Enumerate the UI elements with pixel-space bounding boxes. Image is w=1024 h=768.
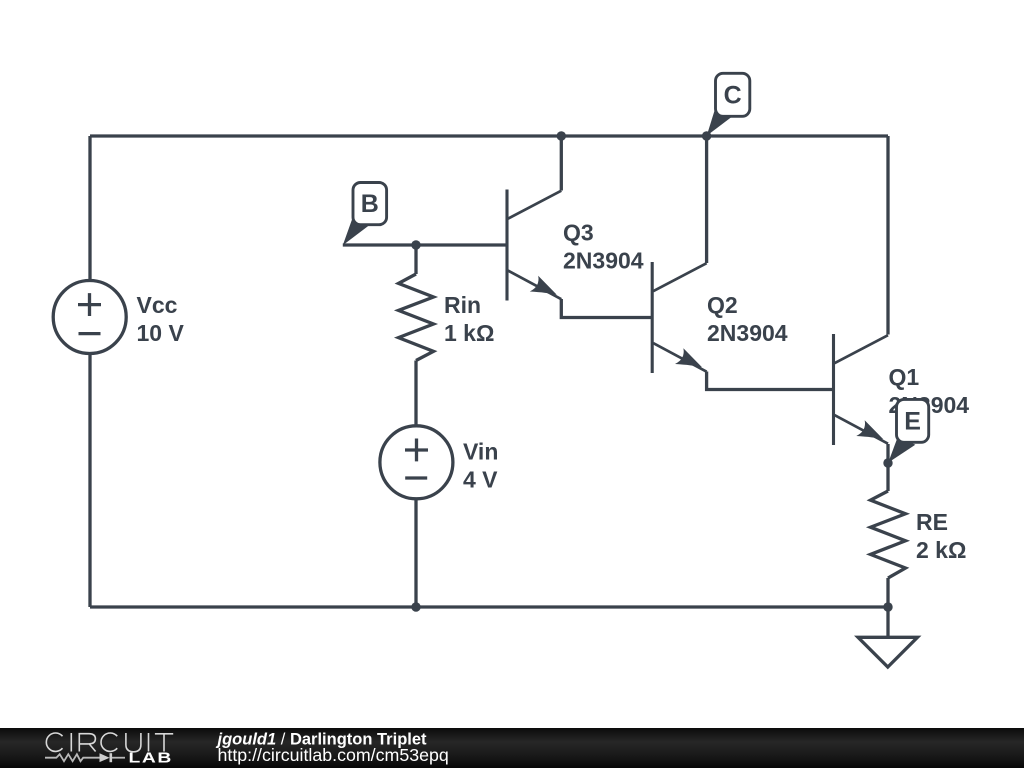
wire Q3 emitter to Q2 base [561,299,652,318]
svg-text:Q2: Q2 [707,292,738,318]
wire Q1 emitter to node E [886,444,889,463]
svg-text:1 kΩ: 1 kΩ [444,320,494,346]
svg-text:4 V: 4 V [463,466,498,492]
junction node B / Rin [411,240,420,249]
wire left rail lower [88,354,91,608]
svg-text:Q3: Q3 [563,220,594,246]
label RE value [916,509,966,563]
wire Q2 collector to top rail (node C) [705,136,708,263]
resistor Rin [399,274,434,361]
transistor Q2 [652,262,706,373]
svg-text:RE: RE [916,509,948,535]
label Q3 2N3904 [563,220,644,274]
transistor Q3 [507,190,561,301]
svg-text:E: E [904,407,921,435]
node E flag [888,399,929,462]
resistor RE [871,491,906,578]
wire top rail [90,134,888,137]
junction Q3 collector / top rail [557,131,566,140]
transistor Q1 [834,334,889,445]
svg-text:C: C [724,81,742,109]
wire Rin to Vin [414,361,417,427]
label Vin value [463,438,498,492]
label Q1 2N3904 [889,364,970,418]
svg-text:Q1: Q1 [889,364,920,390]
svg-text:http://circuitlab.com/cm53epq: http://circuitlab.com/cm53epq [218,745,449,765]
svg-text:Vin: Vin [463,438,498,464]
svg-text:Vcc: Vcc [137,292,178,318]
wire ground stub [886,607,889,638]
svg-text:LAB: LAB [129,750,173,766]
node C flag [707,73,750,136]
ground [858,637,918,667]
svg-text:B: B [361,190,379,218]
CircuitLab logo: CIRCUIT [46,733,173,752]
junction node C on top rail [702,131,711,140]
wire Rin top lead [414,245,417,274]
junction RE / ground [883,602,892,611]
footer bar [0,728,1024,768]
voltage source Vcc [53,281,126,354]
voltage source Vin [380,426,453,499]
junction node E / Q1 emitter [883,458,892,467]
wire Q3 collector to top rail [560,136,563,191]
svg-text:2N3904: 2N3904 [707,320,788,346]
wire Q2 emitter to Q1 base [707,372,834,390]
label Vcc value [137,292,185,346]
node B flag [343,183,387,246]
label Rin value [444,292,494,346]
wire node E to RE [886,463,889,491]
wire bottom rail [90,605,888,608]
junction Vin / bottom rail [411,602,420,611]
svg-text:2N3904: 2N3904 [563,248,644,274]
wire node B to Q3 base [343,243,507,246]
CircuitLab logo: resistor-diode squiggle [45,753,125,762]
wire left rail upper [88,136,91,281]
label Q2 2N3904 [707,292,788,346]
wire Vin to bottom rail [414,499,417,608]
svg-text:2 kΩ: 2 kΩ [916,537,966,563]
svg-text:Rin: Rin [444,292,481,318]
svg-text:10 V: 10 V [137,320,185,346]
wire RE to bottom rail [886,578,889,607]
wire Q1 collector to top rail [886,136,889,335]
